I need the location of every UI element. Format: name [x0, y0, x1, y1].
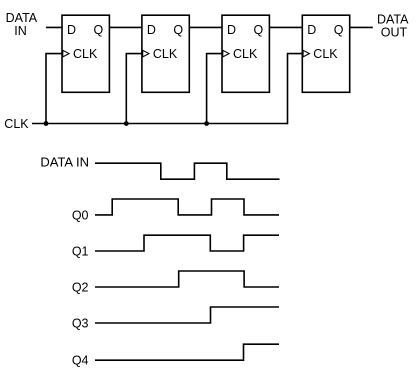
flip-flop U4 [302, 15, 349, 92]
flip-flop U1 [62, 15, 109, 92]
svg-text:Q: Q [93, 23, 103, 37]
flip-flop U2 [142, 15, 189, 92]
wire U2.Q to U3.D [189, 26, 222, 28]
svg-text:Q1: Q1 [72, 244, 89, 258]
clock edge triangle U1 [63, 50, 69, 57]
svg-text:Q: Q [253, 23, 263, 37]
svg-text:CLK: CLK [73, 47, 98, 61]
wire CLK riser to U2 [126, 54, 142, 124]
wire CLK riser to U3 [207, 54, 222, 124]
node DATA IN label [6, 11, 38, 38]
wire U3.Q to U4.D [269, 26, 302, 28]
wire U4.Q to DATA OUT [349, 26, 372, 28]
svg-text:DATA: DATA [6, 11, 38, 25]
node DATA OUT label [377, 13, 409, 40]
svg-text:D: D [67, 23, 76, 37]
svg-text:DATA: DATA [377, 13, 409, 27]
svg-text:CLK: CLK [233, 47, 258, 61]
svg-text:DATA IN: DATA IN [40, 154, 89, 169]
svg-text:Q: Q [173, 23, 183, 37]
wire CLK bus [32, 123, 288, 125]
waveform Q4 [95, 344, 279, 360]
svg-text:D: D [307, 23, 316, 37]
svg-text:IN: IN [14, 24, 27, 38]
svg-text:CLK: CLK [153, 47, 178, 61]
svg-text:CLK: CLK [4, 117, 29, 131]
wire CLK riser to U1 [46, 54, 62, 124]
waveform Q3 [95, 307, 279, 323]
waveform DATA IN [95, 163, 280, 179]
svg-text:Q: Q [334, 23, 344, 37]
junction dot at U2 riser [124, 121, 129, 126]
svg-text:OUT: OUT [381, 25, 408, 39]
flip-flop U3 [222, 15, 269, 92]
svg-text:Q4: Q4 [72, 354, 89, 368]
waveform Q2 [95, 271, 279, 287]
junction dot at U3 riser [204, 121, 209, 126]
svg-text:D: D [147, 23, 156, 37]
svg-text:Q0: Q0 [72, 208, 89, 222]
waveform Q0 [95, 199, 279, 215]
clock edge triangle U4 [303, 50, 309, 57]
clock edge triangle U2 [143, 50, 149, 57]
svg-text:D: D [227, 23, 236, 37]
wire U1.Q to U2.D [109, 26, 141, 28]
waveform Q1 [95, 235, 279, 251]
svg-text:Q3: Q3 [72, 316, 89, 330]
wire DATA IN to U1.D [46, 26, 63, 28]
svg-text:Q2: Q2 [72, 280, 89, 294]
wire CLK riser to U4 [288, 54, 303, 125]
junction dot at U1 riser [44, 121, 49, 126]
svg-text:CLK: CLK [313, 47, 338, 61]
clock edge triangle U3 [223, 50, 229, 57]
